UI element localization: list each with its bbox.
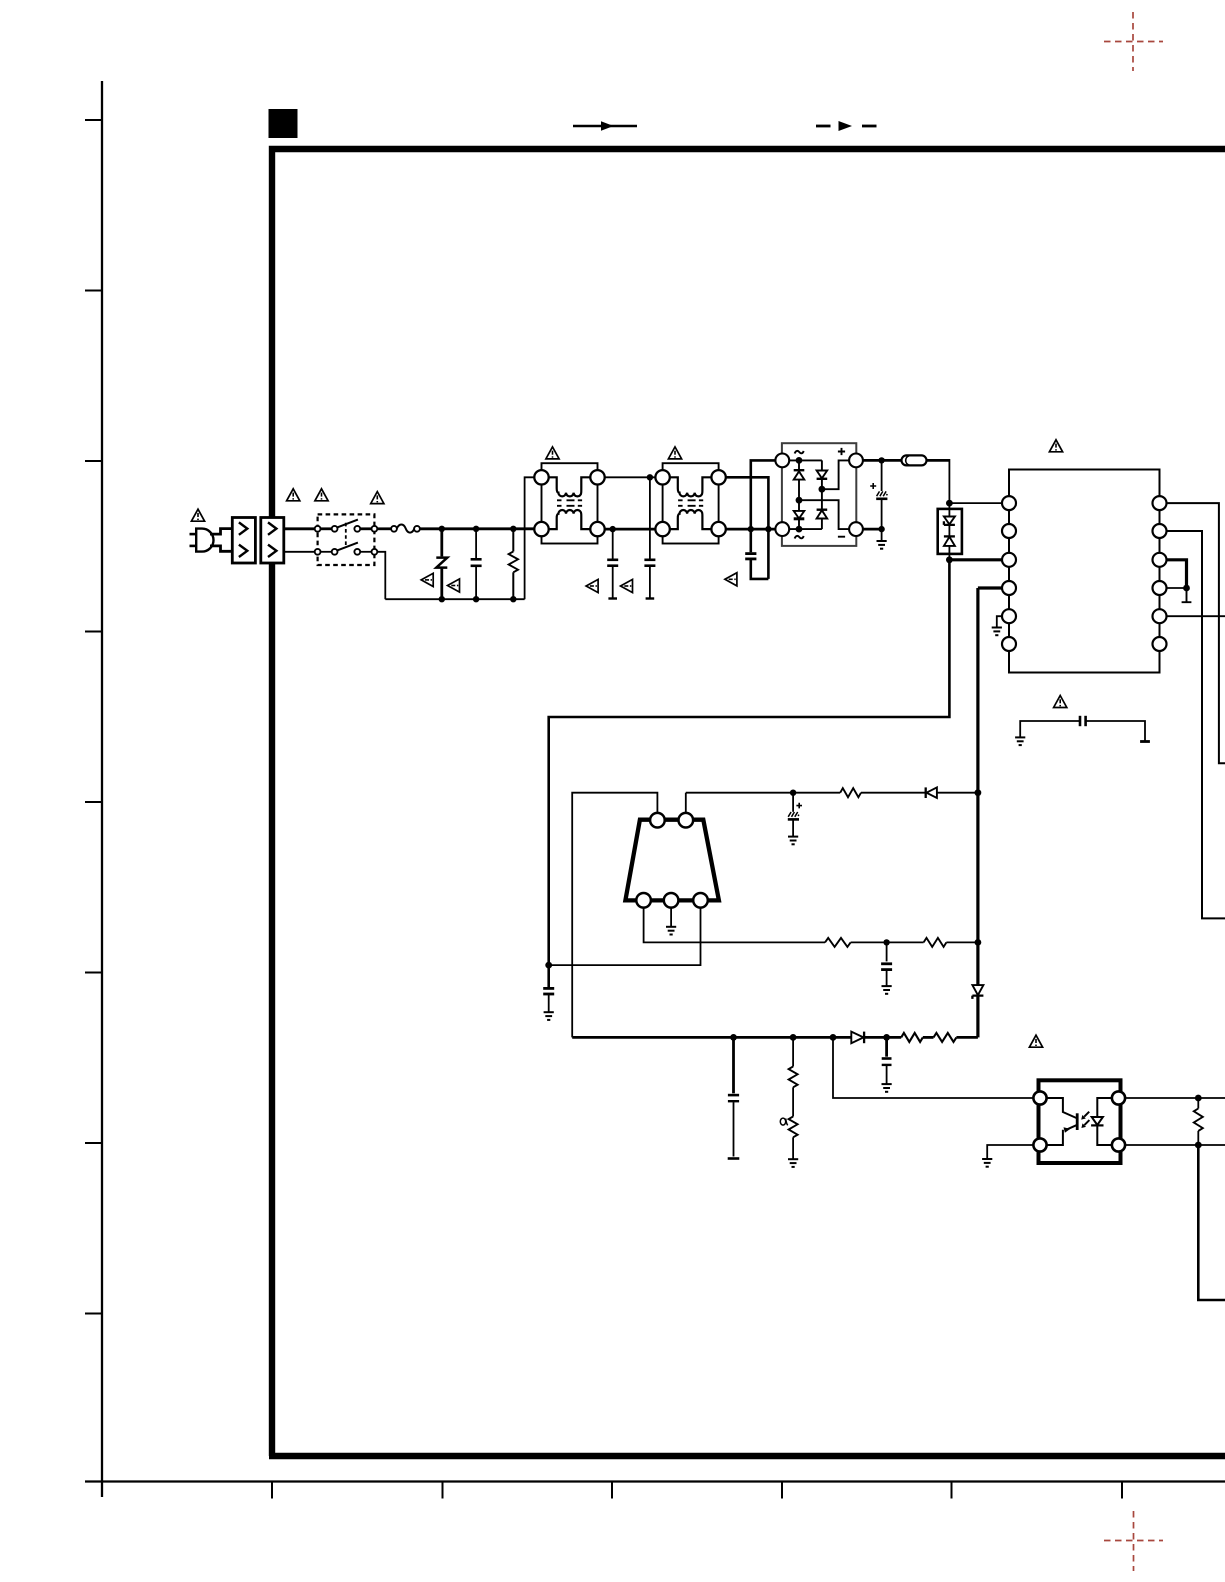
bridge rectifier D1 <box>782 443 856 546</box>
node (C10 top) <box>730 1034 737 1041</box>
resistor R1 <box>509 529 518 599</box>
opto pins <box>1033 1091 1125 1151</box>
ground (Y cap) <box>1015 737 1025 745</box>
wire switch pole B down to bottom rail <box>377 552 385 599</box>
switch S1 dashed box <box>318 514 375 565</box>
wire opto cathode to ground <box>987 1145 1033 1158</box>
node (TVS bottom) <box>946 556 953 563</box>
ground (C7) <box>544 1012 554 1020</box>
capacitor C4 (X cap) <box>745 554 768 579</box>
wire IC pin5 to ground <box>997 616 1002 627</box>
legend solid arrow <box>573 121 637 131</box>
diode D3 <box>926 787 937 798</box>
capacitor C7 <box>543 965 554 1011</box>
line filter choke L1 <box>534 463 604 543</box>
rail D5 to R7 <box>864 1036 901 1039</box>
ground (C9) <box>882 986 892 994</box>
schematic thick border <box>269 149 1225 1456</box>
wire T1 mid ground <box>670 908 672 927</box>
legend dashed arrow <box>816 121 877 131</box>
capacitor C11 <box>882 1037 892 1083</box>
warning triangle left (C4) <box>725 573 737 586</box>
opto LED <box>1091 1098 1112 1145</box>
node (line B / AC) <box>765 526 771 532</box>
switch S1 pole A <box>315 520 378 532</box>
resistor R4 <box>924 938 947 947</box>
wire L2 to bridge (neutral) <box>726 528 776 531</box>
warning triangle left (C2) <box>586 579 598 592</box>
warning triangle (plug) <box>191 509 204 521</box>
wire bridge - output <box>863 528 882 531</box>
wire TVS to IC pin3 <box>949 558 1002 561</box>
warning triangle (opto) <box>1029 1035 1042 1047</box>
wire IC pinR3 <box>1167 560 1187 586</box>
warning triangle (IC U1) <box>1049 440 1062 452</box>
ground (opto) <box>982 1159 992 1167</box>
wire IC pinR5 <box>1167 615 1225 617</box>
capacitor C5 (electrolytic) <box>876 460 887 540</box>
registration crosshair top right <box>1104 12 1163 71</box>
ruler tick marks bottom <box>272 1482 1122 1499</box>
ruler tick marks left <box>85 120 102 1314</box>
optocoupler PC1 <box>1039 1080 1121 1163</box>
aux supply line <box>686 792 840 794</box>
open terminal (pinR4) <box>1182 588 1192 602</box>
IC U1 pins left <box>1002 496 1016 651</box>
node (R1 top) <box>510 526 516 532</box>
capacitor C1 <box>471 529 482 599</box>
page frame bottom ruler line <box>85 1480 1225 1482</box>
connector J1 <box>232 518 255 564</box>
node (pinR3/R4) <box>1183 585 1190 592</box>
node (C8 top) <box>790 790 796 796</box>
wire bridge AC top loop <box>751 460 776 552</box>
node (C5 top) <box>878 457 884 463</box>
wire switch to fuse <box>377 527 391 530</box>
warning triangle left (varistor) <box>421 573 433 586</box>
rail R7 to R8 <box>923 1036 934 1039</box>
wire L1 to L2 bottom <box>605 528 656 531</box>
resistor R5 <box>789 1037 798 1116</box>
node (R1 bottom) <box>510 596 516 602</box>
capacitor C2 <box>607 529 618 598</box>
wire opto emitter out <box>1125 1144 1225 1146</box>
ground (T1 center tap) <box>666 927 676 935</box>
opto phototransistor <box>1047 1098 1078 1145</box>
wire bead to primary <box>927 459 950 462</box>
warning triangle (Y cap) <box>1054 696 1067 708</box>
wire R2 to D3 <box>861 792 926 794</box>
node (snubber / feedback) <box>545 962 552 969</box>
registration crosshair bottom right <box>1104 1511 1163 1571</box>
transformer T1 <box>625 813 719 908</box>
wire R3 to R4 <box>851 941 924 943</box>
switch S1 pole B <box>315 543 378 555</box>
node (C5 bottom) <box>878 526 884 532</box>
node (bridge A top) <box>796 457 803 464</box>
node (C9 top) <box>883 939 889 945</box>
ground (IC pin5) <box>992 628 1002 636</box>
line filter choke L2 <box>655 463 725 543</box>
node (R9 bottom) <box>1195 1142 1202 1149</box>
capacitor C6 (Y cap) <box>1020 716 1150 742</box>
node (aux to return) <box>975 789 982 796</box>
wire L2 to bridge (hot) <box>726 477 769 579</box>
bridge diode D1c <box>794 511 805 519</box>
diode D5 <box>851 1032 864 1044</box>
zener diode D4 <box>972 985 983 1037</box>
warning triangle (switch) <box>371 492 384 504</box>
node (bridge A bottom) <box>796 526 803 533</box>
warning triangle (J2 right) <box>315 489 328 501</box>
warning triangle (choke L2) <box>668 447 681 459</box>
wire to IC pin1 <box>949 502 1002 504</box>
node (varistor top) <box>439 526 445 532</box>
wire D3 to primary return <box>937 792 978 794</box>
resistor R9 <box>1194 1098 1203 1145</box>
black index square <box>269 109 298 138</box>
wire T1 aux bottom to feedback node <box>549 908 701 966</box>
node (bridge A mid) <box>796 497 803 504</box>
resistor R8 <box>934 1033 957 1042</box>
wire J2 to switch <box>284 527 315 530</box>
node (bridge B mid) <box>819 486 826 493</box>
node (feedback to return) <box>975 939 982 946</box>
AC plug P1 <box>190 529 214 552</box>
IC U1 (power hybrid) <box>1009 470 1160 673</box>
node (C3 top) <box>647 474 653 480</box>
ground (C11) <box>882 1084 892 1092</box>
capacitor C10 <box>728 1037 740 1158</box>
wire plug to connector <box>210 529 232 552</box>
bridge diode D1d <box>817 510 828 519</box>
fuse F1 <box>391 525 420 533</box>
wire L1 to L2 top <box>605 476 656 478</box>
warning triangle left (cap X) <box>448 579 460 592</box>
node (R5 top) <box>790 1034 797 1041</box>
bridge pin circles <box>775 454 863 536</box>
primary return line <box>976 588 979 985</box>
warning triangle (J2 left) <box>287 489 300 501</box>
wire IC pinR1 <box>1167 503 1225 763</box>
capacitor C8 (electrolytic) <box>788 793 799 836</box>
IC U1 pins right <box>1153 496 1167 651</box>
opto light arrows <box>1084 1112 1089 1125</box>
node (TVS top) <box>946 500 953 507</box>
wire T1 drain pin up <box>685 793 687 813</box>
wire IC pin4 to primary return <box>978 586 1002 589</box>
wire R4 to return <box>946 941 978 943</box>
resistor R7 <box>901 1033 923 1042</box>
resistor R2 <box>840 788 861 797</box>
node (opto feed) <box>830 1034 837 1041</box>
bridge diode D1a <box>794 470 805 479</box>
bottom return rail <box>385 598 524 600</box>
inductor L3 (ferrite bead) <box>902 455 927 465</box>
TVS diode D2a <box>944 503 955 536</box>
resistor R6 <box>789 1117 798 1159</box>
connector J2 <box>261 518 284 564</box>
TVS diode D2b <box>944 536 955 558</box>
node (varistor bottom) <box>439 596 445 602</box>
warning triangle (choke L1) <box>546 447 559 459</box>
node (C11 top) <box>883 1034 890 1041</box>
feedback line mid <box>644 908 825 943</box>
node (C1 bottom) <box>473 596 479 602</box>
wire transformer primary top left <box>572 793 657 1038</box>
node (C2 top) <box>610 526 616 532</box>
varistor Z1 <box>436 529 447 599</box>
wire fuse to filter <box>420 527 542 530</box>
ground (C8) <box>788 837 798 845</box>
wire rail up to choke L1 <box>525 477 535 599</box>
wire emitter rail down <box>1198 1145 1225 1300</box>
bridge labels <box>795 448 846 539</box>
bridge diode D1b <box>817 471 828 479</box>
warning triangle left (C3) <box>621 579 633 592</box>
node (C1 top) <box>473 526 479 532</box>
wire opto collector out <box>1125 1097 1225 1099</box>
ground (C5) <box>877 541 887 549</box>
node (C4 / AC) <box>748 526 754 532</box>
page frame left ruler line <box>101 81 103 1497</box>
wire to opto LED <box>833 1037 1033 1098</box>
wire IC pinR2 <box>1167 531 1225 918</box>
resistor R3 <box>825 938 851 947</box>
wire bridge + output <box>863 459 902 462</box>
bottom secondary rail <box>572 1036 851 1039</box>
TVS D2 box <box>938 509 962 554</box>
switch S1 mechanical link <box>345 523 347 547</box>
node (R9 top) <box>1195 1095 1202 1102</box>
capacitor C3 <box>644 477 655 598</box>
rail R8 to return <box>956 1036 978 1039</box>
primary snubber loop wire <box>549 561 950 964</box>
capacitor C9 <box>881 942 892 985</box>
ground (R6) <box>788 1159 798 1167</box>
wire IC pinR4 <box>1167 587 1187 589</box>
